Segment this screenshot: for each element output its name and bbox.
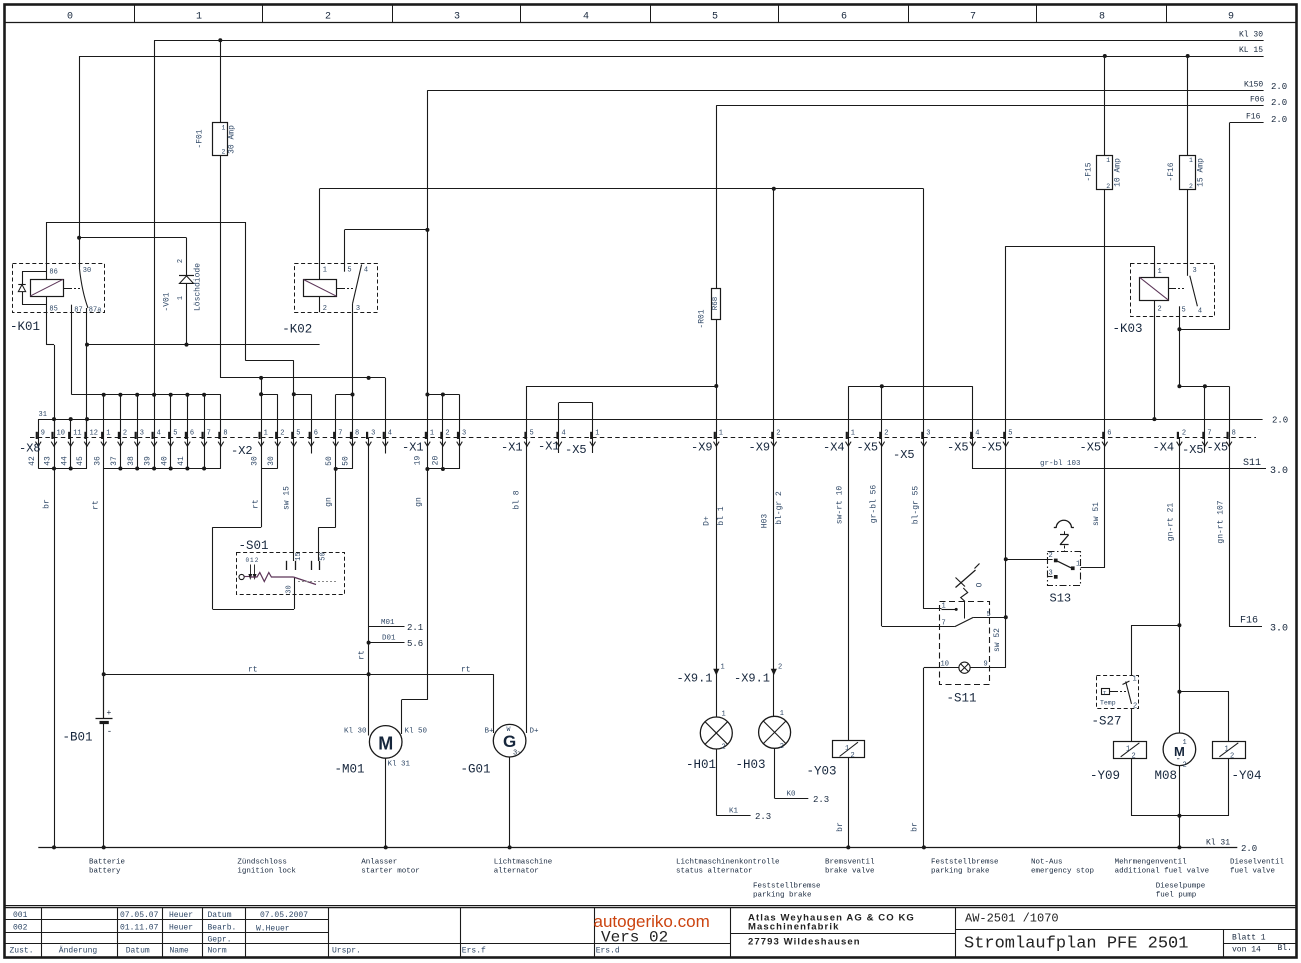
svg-text:Dieselpumpe: Dieselpumpe	[1156, 883, 1206, 891]
junction X2:3 branch	[367, 376, 371, 380]
svg-text:Norm: Norm	[208, 947, 227, 956]
svg-text:-S01: -S01	[239, 539, 269, 553]
junction X8:12 on 31-line	[85, 417, 89, 421]
junction F01 tap on Kl 30	[218, 38, 222, 42]
svg-text:4: 4	[583, 12, 589, 23]
svg-text:4: 4	[975, 429, 979, 437]
svg-text:-F01: -F01	[196, 129, 205, 148]
svg-text:5: 5	[347, 267, 351, 275]
svg-text:2.0: 2.0	[1272, 416, 1288, 426]
wire K02 pin3 to X2:7/8 (50)	[336, 312, 353, 437]
terminal X5:6	[1080, 429, 1112, 454]
svg-text:Ers.f: Ers.f	[462, 947, 486, 956]
svg-text:5: 5	[1008, 429, 1012, 437]
svg-text:7: 7	[207, 429, 211, 437]
wire K03 output to X4:2 X5:7 X5:8	[1179, 386, 1229, 437]
junction X8 bus	[202, 393, 206, 397]
switch S13 (Not-Aus)	[1006, 520, 1105, 605]
svg-text:10: 10	[941, 661, 949, 669]
svg-text:Kl 30: Kl 30	[1239, 31, 1263, 40]
svg-text:gr-bl 56: gr-bl 56	[870, 485, 879, 524]
svg-text:0: 0	[67, 12, 73, 23]
svg-text:-X9: -X9	[691, 441, 713, 455]
junction 87a / coil-return line	[85, 343, 89, 347]
svg-text:86: 86	[49, 269, 57, 277]
svg-text:7: 7	[1207, 429, 1211, 437]
svg-text:K0: K0	[787, 791, 797, 799]
svg-text:30: 30	[286, 585, 294, 593]
svg-text:9: 9	[984, 661, 988, 669]
wire gn-rt 21 distribution	[1131, 625, 1179, 733]
svg-text:2: 2	[1183, 762, 1187, 770]
wire S11 lamp to ground (br)	[911, 668, 940, 848]
svg-text:2.0: 2.0	[1271, 82, 1287, 92]
junction F15 tap on KL 15	[1103, 54, 1107, 58]
valve Y09 Mehrmengenventil	[1090, 742, 1147, 784]
svg-text:-F15: -F15	[1085, 162, 1094, 181]
svg-text:2: 2	[1133, 703, 1137, 711]
svg-text:2: 2	[1189, 183, 1193, 190]
wire Y04 feed	[1179, 692, 1229, 742]
svg-text:bl 1: bl 1	[717, 506, 726, 525]
diode V01 Loeschdiode	[163, 259, 203, 345]
wire Kl 31 ground bus	[38, 839, 1257, 855]
svg-text:-K03: -K03	[1113, 322, 1143, 336]
svg-text:1: 1	[1133, 676, 1137, 684]
wire H01 to K1 ref	[716, 749, 771, 822]
junction X8 bus	[118, 393, 122, 397]
svg-text:-X5: -X5	[893, 448, 915, 462]
svg-text:8: 8	[355, 429, 359, 437]
terminal X5:4 / gr-bl 103 to S11 3.0	[947, 429, 1288, 477]
svg-text:1: 1	[780, 710, 784, 718]
svg-text:Dieselventil: Dieselventil	[1230, 859, 1285, 867]
svg-text:G: G	[503, 732, 516, 751]
junction X8 bus	[102, 393, 106, 397]
wire F16 bus	[1179, 113, 1287, 330]
terminal X1:5 (D+)	[501, 386, 716, 733]
svg-text:2.0: 2.0	[1271, 98, 1287, 108]
svg-text:-: -	[107, 727, 112, 737]
connector X9.1 pin1	[677, 664, 725, 686]
company block	[748, 913, 915, 948]
svg-text:1: 1	[323, 267, 327, 275]
motor M01 Anlasser	[335, 726, 428, 777]
svg-text:-X5: -X5	[947, 441, 969, 455]
junction K03 pin5 / F16 drop	[1177, 327, 1181, 331]
relay K01	[10, 264, 105, 335]
svg-text:50: 50	[341, 456, 350, 466]
terminals X1:4 / X5:1 bridge	[538, 403, 599, 458]
svg-text:7: 7	[338, 429, 342, 437]
junction D01 branch	[367, 641, 371, 645]
svg-text:H03: H03	[761, 514, 770, 529]
svg-text:10 Amp: 10 Amp	[1114, 158, 1123, 187]
svg-text:4: 4	[364, 267, 368, 275]
wire K01 pin85 to ground line	[47, 312, 55, 437]
svg-text:4: 4	[388, 429, 392, 437]
junction on Kl 31 bus	[846, 845, 850, 849]
svg-text:2: 2	[780, 743, 784, 751]
svg-text:-X4: -X4	[823, 441, 845, 455]
svg-text:1: 1	[1183, 739, 1187, 747]
svg-text:br: br	[836, 822, 845, 832]
wire K150 bus	[427, 81, 1287, 395]
svg-text:Kl 30: Kl 30	[344, 728, 367, 736]
svg-text:3: 3	[454, 12, 460, 23]
svg-text:3: 3	[926, 429, 930, 437]
svg-text:gn: gn	[325, 497, 334, 507]
svg-text:Mehrmengenventil: Mehrmengenventil	[1115, 859, 1188, 867]
terminal strip X2	[213, 429, 393, 609]
svg-text:-X9: -X9	[749, 441, 771, 455]
svg-text:Feststellbremse: Feststellbremse	[931, 859, 999, 867]
wire Y-group to ground	[1131, 758, 1229, 847]
junction X1 below-bracket	[425, 467, 429, 471]
svg-text:gr-bl 103: gr-bl 103	[1040, 460, 1081, 468]
wire K01 pin87a net	[86, 308, 88, 437]
svg-text:-X8: -X8	[19, 442, 41, 456]
junction X8 bus	[185, 393, 189, 397]
svg-text:45: 45	[76, 456, 85, 466]
relay K03	[1113, 264, 1215, 337]
svg-text:-B01: -B01	[63, 731, 93, 745]
junction V01 cathode	[185, 343, 189, 347]
svg-text:S11: S11	[1243, 458, 1261, 469]
svg-text:5: 5	[173, 429, 177, 437]
svg-text:07.05.2007: 07.05.2007	[260, 911, 308, 920]
svg-text:1: 1	[721, 664, 725, 672]
svg-text:-X5: -X5	[1182, 443, 1204, 457]
junction X5:7 riser	[1203, 384, 1207, 388]
svg-text:starter motor: starter motor	[361, 868, 420, 876]
svg-text:1: 1	[250, 557, 254, 564]
terminal X9:2	[749, 189, 785, 717]
svg-text:0: 0	[246, 557, 250, 564]
junction X8:11 on 31-line	[69, 417, 73, 421]
svg-text:2: 2	[884, 429, 888, 437]
junction X2:1 minibus	[259, 392, 263, 396]
junction X8 bus	[135, 393, 139, 397]
svg-text:-S27: -S27	[1092, 715, 1122, 729]
svg-text:-K01: -K01	[10, 320, 40, 334]
svg-text:2: 2	[445, 429, 449, 437]
svg-text:-X9.1: -X9.1	[734, 672, 770, 686]
lamp H03	[736, 710, 791, 772]
svg-text:1: 1	[1225, 746, 1229, 754]
connector X9.1 pin2	[734, 664, 782, 686]
generator G01 Lichtmaschine	[461, 724, 540, 776]
svg-text:-X5: -X5	[857, 441, 879, 455]
junction K01 pin30 / V01 branch	[77, 236, 81, 240]
svg-text:Datum: Datum	[208, 911, 232, 920]
junction K03 pin2 on 31-line	[1152, 417, 1156, 421]
terminal X5:2	[857, 429, 955, 626]
svg-text:-Y03: -Y03	[807, 765, 837, 779]
svg-text:2: 2	[778, 664, 782, 672]
svg-text:5: 5	[712, 12, 718, 23]
terminal strip X8 9-12	[19, 419, 98, 847]
wire V01 branch	[79, 238, 186, 276]
svg-text:Datum: Datum	[126, 947, 150, 956]
junction X1:2	[441, 393, 445, 397]
svg-text:36: 36	[93, 456, 102, 466]
svg-text:9: 9	[1228, 12, 1234, 23]
svg-text:8: 8	[1099, 12, 1105, 23]
svg-text:1: 1	[264, 429, 268, 437]
terminal strip X1 1-3	[402, 429, 467, 734]
svg-text:alternator: alternator	[494, 868, 539, 876]
svg-text:emergency stop: emergency stop	[1031, 868, 1094, 876]
svg-text:-X1: -X1	[501, 441, 523, 455]
svg-text:-Y04: -Y04	[1232, 769, 1262, 783]
svg-text:5: 5	[1182, 307, 1186, 315]
svg-text:2: 2	[255, 557, 259, 564]
svg-text:Zündschloss: Zündschloss	[237, 859, 287, 867]
svg-text:Gepr.: Gepr.	[208, 936, 232, 945]
svg-text:1: 1	[222, 125, 226, 132]
svg-text:37: 37	[110, 456, 119, 466]
svg-text:Stromlaufplan PFE 2501: Stromlaufplan PFE 2501	[964, 935, 1188, 954]
wire M01 Kl31 to ground	[385, 758, 387, 847]
svg-text:Temp: Temp	[1100, 700, 1116, 707]
svg-text:battery: battery	[89, 868, 121, 876]
junction X1:1	[425, 393, 429, 397]
svg-text:O: O	[976, 582, 985, 587]
wire K02 pin5 feed	[345, 230, 428, 264]
svg-text:3: 3	[462, 429, 466, 437]
junction battery / rt line	[102, 672, 106, 676]
svg-text:12: 12	[90, 429, 98, 437]
svg-text:1: 1	[845, 745, 849, 753]
svg-text:4: 4	[562, 429, 566, 437]
svg-text:3.0: 3.0	[1270, 466, 1288, 477]
svg-text:-M01: -M01	[335, 763, 365, 777]
junction on Kl 31 bus	[922, 845, 926, 849]
svg-text:2.3: 2.3	[813, 795, 829, 805]
svg-text:-X5: -X5	[1207, 441, 1229, 455]
junction K150 drop / K02 pin5	[425, 228, 429, 232]
svg-text:1: 1	[196, 12, 202, 23]
svg-text:+: +	[107, 709, 112, 718]
wire F01 output to X2 terminals	[220, 155, 385, 437]
terminal X5:3	[893, 429, 942, 609]
svg-text:Kl 31: Kl 31	[388, 761, 411, 769]
svg-text:002: 002	[13, 924, 28, 933]
svg-text:Batterie: Batterie	[89, 859, 125, 867]
svg-text:5: 5	[530, 429, 534, 437]
wire Kl 30 bus	[154, 31, 1264, 395]
svg-text:B+: B+	[485, 728, 495, 736]
svg-text:M: M	[378, 734, 393, 754]
svg-text:5.6: 5.6	[407, 639, 423, 649]
svg-text:-X2: -X2	[231, 444, 253, 458]
svg-text:9: 9	[41, 429, 45, 437]
terminal X5:5	[981, 429, 1013, 454]
svg-text:Kl 31: Kl 31	[1206, 839, 1230, 848]
svg-text:W.Heuer: W.Heuer	[256, 925, 290, 934]
svg-text:1: 1	[106, 429, 110, 437]
svg-text:sw-rt 10: sw-rt 10	[836, 486, 845, 525]
svg-text:-X5: -X5	[1080, 441, 1102, 455]
svg-text:-V01: -V01	[163, 292, 172, 311]
junction X9:1 / D+ line	[714, 384, 718, 388]
svg-text:6: 6	[841, 12, 847, 23]
switch S01 Zuendschloss	[237, 539, 345, 595]
svg-text:-H01: -H01	[686, 758, 716, 772]
svg-text:1: 1	[1189, 157, 1193, 164]
svg-text:5: 5	[296, 429, 300, 437]
svg-text:M01: M01	[381, 619, 395, 627]
svg-text:7: 7	[970, 12, 976, 23]
svg-text:3~: 3~	[513, 750, 521, 758]
svg-text:3: 3	[140, 429, 144, 437]
svg-text:15: 15	[295, 552, 303, 560]
sheet number	[1232, 934, 1292, 955]
svg-text:3: 3	[371, 429, 375, 437]
svg-text:Heuer: Heuer	[169, 924, 193, 933]
svg-text:4: 4	[1198, 308, 1202, 316]
svg-text:F06: F06	[1250, 96, 1265, 105]
terminal X5:7	[1182, 429, 1212, 457]
svg-text:2: 2	[123, 429, 127, 437]
svg-text:-G01: -G01	[461, 763, 491, 777]
svg-text:1: 1	[177, 296, 185, 300]
svg-text:rt: rt	[248, 666, 258, 675]
svg-text:rt: rt	[92, 500, 101, 510]
svg-text:6: 6	[1107, 429, 1111, 437]
svg-text:5: 5	[987, 611, 991, 619]
svg-text:Feststellbremse: Feststellbremse	[753, 883, 821, 891]
lamp H01	[686, 711, 732, 773]
svg-text:additional fuel valve: additional fuel valve	[1115, 868, 1210, 876]
valve Y04 Dieselventil	[1213, 742, 1262, 784]
svg-text:KL 15: KL 15	[1239, 46, 1263, 55]
wire F06 bus	[716, 96, 1287, 289]
terminal rail (dashed)	[30, 437, 1256, 439]
svg-text:-K02: -K02	[282, 323, 312, 337]
svg-text:ignition lock: ignition lock	[237, 868, 296, 876]
svg-text:K150: K150	[1244, 81, 1263, 90]
svg-text:8: 8	[223, 429, 227, 437]
svg-text:15 Amp: 15 Amp	[1196, 158, 1205, 187]
svg-text:07.05.07: 07.05.07	[120, 911, 159, 920]
svg-text:30: 30	[83, 267, 91, 275]
svg-text:-R01: -R01	[698, 309, 707, 328]
svg-text:2: 2	[851, 752, 855, 760]
svg-text:D+: D+	[703, 516, 712, 526]
svg-text:30: 30	[267, 456, 276, 466]
wire S27 to Y09	[1131, 709, 1133, 741]
svg-text:gn: gn	[415, 497, 424, 507]
svg-text:K1: K1	[729, 808, 739, 816]
svg-text:50: 50	[325, 456, 334, 466]
wire coil return line to K02	[87, 344, 320, 346]
terminal X9:1	[691, 319, 726, 717]
svg-text:von 14: von 14	[1232, 946, 1261, 955]
svg-text:2: 2	[1049, 552, 1053, 560]
svg-text:2: 2	[722, 744, 726, 752]
svg-text:-S11: -S11	[947, 692, 977, 706]
junction on Kl 31 bus	[1177, 845, 1181, 849]
svg-text:2: 2	[1106, 183, 1110, 190]
svg-text:50: 50	[320, 552, 328, 560]
svg-text:Änderung: Änderung	[59, 947, 98, 956]
terminal X4:1	[823, 429, 855, 740]
switch S11 (Feststellbremse)	[939, 564, 1006, 706]
fuse F01 30 Amp	[196, 40, 237, 155]
svg-text:-X5: -X5	[981, 441, 1003, 455]
svg-text:42: 42	[28, 456, 37, 466]
svg-text:30: 30	[251, 456, 260, 466]
svg-text:1: 1	[1106, 157, 1110, 164]
svg-text:sw 51: sw 51	[1092, 502, 1101, 526]
svg-text:sw 52: sw 52	[993, 628, 1002, 652]
svg-text:85: 85	[49, 306, 57, 314]
svg-text:87: 87	[74, 307, 82, 315]
wire rt main line	[104, 666, 494, 734]
svg-text:parking brake: parking brake	[931, 868, 990, 876]
junction starter branch	[367, 672, 371, 676]
svg-text:D+: D+	[530, 728, 540, 736]
battery B01	[63, 674, 113, 847]
svg-text:rt: rt	[252, 499, 261, 509]
junction X2:7/8 below	[334, 467, 338, 471]
wire sw15 to K01 pin86	[47, 222, 312, 437]
junction X8:10 on 31-line	[52, 417, 56, 421]
junction Y-group	[1177, 814, 1181, 818]
junction X2:1 branch	[259, 376, 263, 380]
svg-text:Lichtmaschine: Lichtmaschine	[494, 859, 553, 867]
valve Y03 Bremsventil	[807, 741, 865, 779]
wire 31 / 2.0 potential line	[38, 411, 1288, 426]
wire sw52 feed (K03 coil / S13)	[1006, 246, 1155, 559]
junction on Kl 31 bus	[102, 845, 106, 849]
svg-text:br: br	[43, 499, 52, 509]
svg-text:19: 19	[414, 456, 423, 466]
svg-text:F16: F16	[1240, 616, 1258, 627]
svg-text:-X5: -X5	[565, 443, 587, 457]
junction X8 bus	[169, 393, 173, 397]
svg-text:2: 2	[776, 429, 780, 437]
svg-text:gn-rt 21: gn-rt 21	[1167, 503, 1176, 542]
svg-text:-X4: -X4	[1153, 441, 1175, 455]
wire K03 pin5 output	[1179, 317, 1181, 387]
svg-text:rt: rt	[461, 666, 471, 675]
wire F15 output / sw 51	[1081, 190, 1105, 568]
terminal X5:8	[1207, 429, 1289, 634]
svg-text:43: 43	[44, 456, 53, 466]
svg-text:44: 44	[60, 456, 69, 466]
svg-text:sw 15: sw 15	[283, 486, 292, 510]
svg-text:Ers.d: Ers.d	[596, 947, 620, 956]
svg-text:001: 001	[13, 911, 28, 920]
svg-text:2: 2	[177, 259, 185, 263]
junction X5:2 riser	[880, 384, 884, 388]
junction S11 pin5 node	[1004, 615, 1008, 619]
svg-text:-X9.1: -X9.1	[677, 672, 713, 686]
wire Y03 to ground	[836, 758, 849, 848]
svg-text:41: 41	[177, 456, 186, 466]
function labels	[89, 859, 1285, 900]
wire H03 to K0 ref	[775, 749, 830, 805]
svg-text:39: 39	[144, 456, 153, 466]
svg-text:7: 7	[942, 620, 946, 628]
svg-text:F16: F16	[1246, 113, 1261, 122]
svg-text:27793 Wildeshausen: 27793 Wildeshausen	[748, 937, 861, 948]
svg-text:Kl 50: Kl 50	[405, 728, 428, 736]
svg-text:1: 1	[1158, 268, 1162, 276]
